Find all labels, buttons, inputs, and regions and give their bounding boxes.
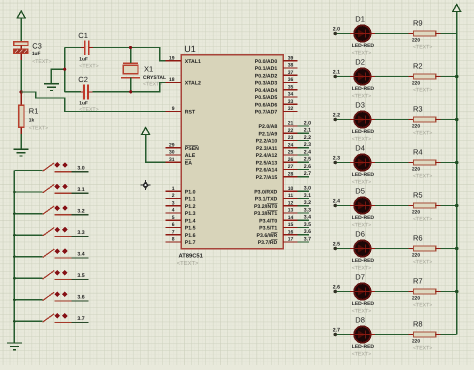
svg-text:LED-RED: LED-RED: [352, 215, 375, 221]
svg-text:LED-RED: LED-RED: [352, 172, 375, 178]
wire net 2.1 at pin 22: [298, 132, 309, 134]
svg-text:37: 37: [288, 70, 294, 76]
svg-text:C2: C2: [78, 75, 88, 84]
svg-text:16: 16: [288, 229, 294, 235]
pin 27 P2.6/A14: [256, 164, 298, 174]
wire power to C3: [20, 18, 22, 42]
ground between C1 C2: [44, 84, 59, 91]
svg-text:34: 34: [288, 92, 294, 98]
svg-text:LED-RED: LED-RED: [352, 129, 375, 135]
wire XTAL2 net: [93, 82, 168, 91]
svg-text:2.4: 2.4: [304, 149, 311, 155]
svg-text:R8: R8: [413, 320, 423, 329]
svg-text:1uF: 1uF: [32, 51, 41, 57]
resistor R9: [409, 31, 442, 36]
svg-text:220: 220: [412, 167, 420, 173]
wire LED D2 to resistor R2: [375, 76, 409, 78]
svg-text:2.7: 2.7: [333, 327, 340, 333]
svg-text:P3.4/T0: P3.4/T0: [259, 218, 277, 224]
svg-text:P1.1: P1.1: [185, 197, 196, 203]
svg-text:<TEXT>: <TEXT>: [352, 266, 371, 272]
switch SW0 net 3.0: [14, 162, 88, 172]
junction VCC bus: [455, 75, 458, 78]
svg-text:18: 18: [169, 77, 175, 83]
resistor R2: [409, 74, 442, 79]
svg-text:39: 39: [288, 55, 294, 61]
svg-text:D4: D4: [355, 144, 365, 153]
svg-text:P2.5/A13: P2.5/A13: [256, 160, 278, 166]
svg-text:P1.6: P1.6: [185, 233, 196, 239]
svg-text:LED-RED: LED-RED: [352, 301, 375, 307]
resistor R3: [409, 117, 442, 122]
svg-text:<TEXT>: <TEXT>: [79, 64, 98, 70]
svg-text:19: 19: [169, 55, 175, 61]
wire net 3.7 at pin 17: [298, 241, 309, 243]
svg-text:P2.4/A12: P2.4/A12: [256, 153, 278, 159]
pin 5 P1.4: [165, 215, 195, 225]
svg-text:3.6: 3.6: [304, 229, 311, 235]
svg-text:3.5: 3.5: [304, 222, 311, 228]
pin 28 P2.7/A15: [256, 171, 298, 181]
svg-text:<TEXT>: <TEXT>: [352, 352, 371, 358]
svg-text:2.5: 2.5: [333, 241, 340, 247]
junction switch bus: [13, 191, 16, 194]
switch SW7 net 3.7: [14, 313, 88, 323]
switch SW3 net 3.3: [14, 227, 88, 237]
svg-text:2: 2: [172, 193, 175, 199]
svg-text:P2.2/A10: P2.2/A10: [256, 139, 278, 145]
svg-text:R9: R9: [413, 19, 423, 28]
svg-text:14: 14: [288, 215, 294, 221]
svg-text:P3.7/RD: P3.7/RD: [258, 240, 278, 246]
svg-text:P1.3: P1.3: [185, 211, 196, 217]
svg-text:P1.5: P1.5: [185, 226, 196, 232]
svg-text:R5: R5: [413, 191, 423, 200]
svg-text:3.3: 3.3: [304, 207, 311, 213]
svg-text:2.1: 2.1: [333, 69, 340, 75]
pin 15 P3.5/T1: [259, 222, 297, 232]
wire resistor R3 to VCC bus: [441, 119, 457, 121]
svg-text:28: 28: [288, 171, 294, 177]
svg-text:LED-RED: LED-RED: [352, 86, 375, 92]
svg-text:D5: D5: [355, 187, 365, 196]
svg-text:2.1: 2.1: [304, 128, 311, 134]
LED D3: [350, 111, 375, 127]
wire crystal top: [130, 48, 132, 64]
svg-text:1: 1: [172, 186, 175, 192]
svg-text:P1.4: P1.4: [185, 218, 196, 224]
pin 7 P1.6: [165, 229, 195, 239]
wire net 3.3 at pin 13: [298, 212, 309, 214]
svg-text:X1: X1: [144, 65, 153, 74]
svg-text:10: 10: [288, 186, 294, 192]
svg-text:3.1: 3.1: [77, 187, 84, 193]
pin 16 P3.6/WR: [257, 229, 298, 239]
svg-text:<TEXT>: <TEXT>: [413, 45, 432, 51]
svg-text:R7: R7: [413, 277, 423, 286]
svg-text:P1.2: P1.2: [185, 204, 196, 210]
wire resistor R4 to VCC bus: [441, 162, 457, 164]
wire resistor R5 to VCC bus: [441, 205, 457, 207]
svg-text:CRYSTAL: CRYSTAL: [143, 75, 166, 81]
resistor R4: [409, 160, 442, 165]
pin 31 EA: [165, 157, 192, 167]
pin 18 XTAL2: [165, 77, 201, 87]
svg-text:1uF: 1uF: [79, 101, 88, 107]
pin 35 P0.4/AD4: [255, 84, 298, 94]
svg-text:LED-RED: LED-RED: [352, 344, 375, 350]
svg-text:2.5: 2.5: [304, 157, 311, 163]
svg-text:D3: D3: [355, 101, 365, 110]
resistor R8: [409, 332, 442, 337]
svg-text:P1.0: P1.0: [185, 189, 196, 195]
svg-text:PSEN: PSEN: [185, 146, 199, 152]
wire net 2.1 to LED D2: [335, 76, 350, 78]
svg-text:3.0: 3.0: [77, 165, 84, 171]
svg-text:P3.6/WR: P3.6/WR: [257, 233, 278, 239]
svg-text:P0.7/AD7: P0.7/AD7: [255, 110, 278, 116]
pin 23 P2.2/A10: [256, 135, 298, 145]
svg-text:P0.5/AD5: P0.5/AD5: [255, 95, 278, 101]
svg-text:C1: C1: [78, 31, 88, 40]
capacitor C1: [65, 40, 94, 55]
svg-text:<TEXT>: <TEXT>: [413, 131, 432, 137]
op-amp U1 AT89C51 body: [181, 55, 283, 249]
svg-text:R3: R3: [413, 105, 423, 114]
wire RST net: [21, 92, 167, 111]
svg-text:<TEXT>: <TEXT>: [413, 303, 432, 309]
pin 19 XTAL1: [165, 55, 201, 65]
svg-text:P2.0/A8: P2.0/A8: [259, 124, 278, 130]
wire net 2.2 at pin 23: [298, 139, 309, 141]
svg-text:P0.0/AD0: P0.0/AD0: [255, 59, 278, 65]
wire resistor R9 to VCC bus: [441, 33, 457, 35]
wire resistor R6 to VCC bus: [441, 248, 457, 250]
junction ground tap: [63, 68, 66, 71]
wire net 2.4 to LED D5: [335, 205, 350, 207]
pin 6 P1.5: [165, 222, 195, 232]
wire net 2.0 at pin 21: [298, 125, 309, 127]
svg-text:29: 29: [169, 142, 175, 148]
pin 26 P2.5/A13: [256, 157, 298, 167]
LED D1: [350, 25, 375, 41]
svg-text:P0.1/AD1: P0.1/AD1: [255, 66, 278, 72]
LED D5: [350, 197, 375, 213]
svg-text:3.5: 3.5: [77, 273, 84, 279]
wire XTAL1 net: [93, 48, 167, 61]
junction switch bus: [13, 234, 16, 237]
wire net 2.7 to LED D8: [335, 334, 350, 336]
junction C3/R1/RST: [20, 90, 23, 93]
wire net 2.0 to LED D1: [335, 33, 350, 35]
svg-text:13: 13: [288, 208, 294, 214]
wire net 3.6 at pin 16: [298, 234, 309, 236]
svg-text:3.4: 3.4: [77, 252, 84, 258]
svg-text:220: 220: [412, 253, 420, 259]
wire ground tap: [51, 69, 64, 84]
svg-text:31: 31: [169, 157, 175, 163]
svg-text:D7: D7: [355, 273, 365, 282]
svg-text:7: 7: [172, 229, 175, 235]
wire net 2.5 at pin 26: [298, 161, 309, 163]
svg-text:P3.0/RXD: P3.0/RXD: [254, 189, 277, 195]
pin 3 P1.2: [165, 200, 195, 210]
wire net 2.3 at pin 24: [298, 147, 309, 149]
wire crystal bottom: [130, 78, 132, 92]
wire resistor R2 to VCC bus: [441, 76, 457, 78]
svg-text:220: 220: [412, 296, 420, 302]
svg-text:26: 26: [288, 157, 294, 163]
svg-text:3.3: 3.3: [77, 230, 84, 236]
svg-text:P3.1/TXD: P3.1/TXD: [255, 197, 278, 203]
wire R1 to ground: [20, 134, 22, 149]
pin 34 P0.5/AD5: [255, 92, 298, 102]
svg-text:3.6: 3.6: [77, 295, 84, 301]
svg-text:<TEXT>: <TEXT>: [352, 94, 371, 100]
wire EA net: [146, 135, 167, 163]
svg-text:9: 9: [172, 106, 175, 112]
junction crystal bottom: [129, 90, 132, 93]
resistor R7: [409, 289, 442, 294]
svg-text:P3.3/INT1: P3.3/INT1: [254, 211, 277, 217]
svg-text:21: 21: [288, 121, 294, 127]
svg-text:6: 6: [172, 222, 175, 228]
svg-text:P3.2/INT0: P3.2/INT0: [254, 204, 277, 210]
capacitor C2: [65, 84, 93, 99]
svg-text:U1: U1: [184, 44, 196, 54]
svg-text:2.4: 2.4: [333, 198, 340, 204]
wire net 3.0 at pin 10: [298, 190, 309, 192]
wire LED D7 to resistor R7: [375, 291, 409, 293]
LED D7: [350, 283, 375, 299]
svg-text:<TEXT>: <TEXT>: [352, 180, 371, 186]
LED D2: [350, 68, 375, 84]
wire net 3.1 at pin 11: [298, 197, 309, 199]
wire net 3.2 at pin 12: [298, 205, 309, 207]
svg-text:<TEXT>: <TEXT>: [413, 217, 432, 223]
svg-text:27: 27: [288, 164, 294, 170]
svg-text:15: 15: [288, 222, 294, 228]
svg-text:P0.2/AD2: P0.2/AD2: [255, 73, 278, 79]
wire LED D5 to resistor R5: [375, 205, 409, 207]
resistor R6: [409, 246, 442, 251]
svg-text:220: 220: [412, 339, 420, 345]
svg-text:<TEXT>: <TEXT>: [413, 346, 432, 352]
svg-text:<TEXT>: <TEXT>: [29, 126, 48, 132]
svg-text:R2: R2: [413, 62, 423, 71]
pin 13 P3.3/INT1: [254, 208, 298, 218]
wire LED D3 to resistor R3: [375, 119, 409, 121]
svg-text:R6: R6: [413, 234, 423, 243]
pin 32 P0.7/AD7: [255, 106, 298, 116]
pin 9 RST: [165, 106, 196, 116]
svg-text:2.3: 2.3: [304, 142, 311, 148]
wire resistor R8 to VCC bus: [441, 334, 457, 336]
svg-text:P1.7: P1.7: [185, 240, 196, 246]
wire LED D8 to resistor R8: [375, 334, 409, 336]
svg-text:2.6: 2.6: [304, 164, 311, 170]
svg-text:R4: R4: [413, 148, 423, 157]
pin 11 P3.1/TXD: [255, 193, 298, 203]
svg-text:35: 35: [288, 84, 294, 90]
pin 8 P1.7: [165, 237, 195, 247]
svg-text:3.7: 3.7: [304, 236, 311, 242]
svg-text:<TEXT>: <TEXT>: [413, 88, 432, 94]
svg-text:38: 38: [288, 63, 294, 69]
resistor R1: [19, 92, 24, 135]
svg-text:33: 33: [288, 99, 294, 105]
pin 22 P2.1/A9: [259, 128, 298, 138]
svg-text:1k: 1k: [29, 118, 35, 124]
svg-text:XTAL2: XTAL2: [185, 81, 201, 87]
svg-text:4: 4: [172, 208, 175, 214]
svg-text:<TEXT>: <TEXT>: [177, 261, 199, 267]
pin 29 PSEN: [165, 142, 199, 152]
pin 14 P3.4/T0: [259, 215, 297, 225]
svg-text:LED-RED: LED-RED: [352, 258, 375, 264]
LED D6: [350, 240, 375, 256]
wire net 2.3 to LED D4: [335, 162, 350, 164]
svg-text:EA: EA: [185, 160, 192, 166]
junction VCC bus: [455, 161, 458, 164]
svg-text:P2.1/A9: P2.1/A9: [259, 131, 278, 137]
svg-text:2.0: 2.0: [304, 120, 311, 126]
svg-text:8: 8: [172, 237, 175, 243]
svg-text:2.7: 2.7: [304, 171, 311, 177]
svg-text:12: 12: [288, 200, 294, 206]
svg-text:3.4: 3.4: [304, 215, 311, 221]
svg-text:2.2: 2.2: [304, 135, 311, 141]
svg-text:C3: C3: [32, 41, 42, 50]
junction switch bus: [13, 212, 16, 215]
junction switch bus: [13, 299, 16, 302]
pin 30 ALE: [165, 150, 195, 160]
switch SW5 net 3.5: [14, 270, 88, 280]
junction VCC bus: [455, 290, 458, 293]
svg-text:3: 3: [172, 200, 175, 206]
ground below R1: [14, 149, 29, 156]
wire VCC bus right: [456, 12, 458, 335]
svg-text:3.7: 3.7: [77, 316, 84, 322]
svg-text:2.2: 2.2: [333, 112, 340, 118]
pin 4 P1.3: [165, 208, 195, 218]
svg-text:D1: D1: [355, 15, 365, 24]
pin 21 P2.0/A8: [259, 121, 298, 131]
junction VCC bus: [455, 118, 458, 121]
pin 12 P3.2/INT0: [254, 200, 298, 210]
svg-text:<TEXT>: <TEXT>: [32, 59, 51, 65]
wire LED D6 to resistor R6: [375, 248, 409, 250]
capacitor C3: [14, 42, 32, 54]
svg-text:3.0: 3.0: [304, 186, 311, 192]
svg-text:D2: D2: [355, 58, 365, 67]
svg-text:<TEXT>: <TEXT>: [352, 137, 371, 143]
svg-text:32: 32: [288, 106, 294, 112]
svg-text:2.3: 2.3: [333, 155, 340, 161]
wire net 2.5 to LED D6: [335, 248, 350, 250]
wire switch ground bus: [13, 171, 15, 344]
svg-text:P0.4/AD4: P0.4/AD4: [255, 88, 278, 94]
pin 39 P0.0/AD0: [255, 55, 298, 65]
svg-text:<TEXT>: <TEXT>: [413, 260, 432, 266]
switch SW4 net 3.4: [14, 248, 88, 258]
svg-text:<TEXT>: <TEXT>: [413, 174, 432, 180]
wire net 3.5 at pin 15: [298, 227, 309, 229]
pin 24 P2.3/A11: [256, 142, 298, 152]
svg-text:2.0: 2.0: [333, 26, 340, 32]
wire net 3.4 at pin 14: [298, 219, 309, 221]
pin 17 P3.7/RD: [258, 237, 298, 247]
power symbol VCC right: [453, 5, 461, 12]
svg-text:2.6: 2.6: [333, 284, 340, 290]
svg-text:220: 220: [412, 81, 420, 87]
resistor R5: [409, 203, 442, 208]
junction switch bus: [13, 277, 16, 280]
pin 2 P1.1: [165, 193, 195, 203]
svg-text:23: 23: [288, 135, 294, 141]
crystal X1: [121, 63, 140, 77]
svg-text:36: 36: [288, 77, 294, 83]
svg-text:25: 25: [288, 150, 294, 156]
svg-text:3.2: 3.2: [304, 200, 311, 206]
wire C3 to RST junction: [20, 53, 22, 60]
svg-text:220: 220: [412, 124, 420, 130]
wire ground bus C1-C2: [64, 48, 66, 92]
svg-text:D6: D6: [355, 230, 365, 239]
svg-text:3.1: 3.1: [304, 193, 311, 199]
pin 37 P0.2/AD2: [255, 70, 298, 80]
svg-text:ALE: ALE: [185, 153, 196, 159]
junction VCC bus: [455, 247, 458, 250]
pin 33 P0.6/AD6: [255, 99, 298, 109]
svg-text:AT89C51: AT89C51: [179, 252, 204, 259]
wire net 2.7 at pin 28: [298, 176, 309, 178]
svg-text:P2.3/A11: P2.3/A11: [256, 146, 277, 152]
wire LED D1 to resistor R9: [375, 33, 409, 35]
svg-text:22: 22: [288, 128, 294, 134]
LED D4: [350, 154, 375, 170]
pin 1 P1.0: [165, 186, 195, 196]
wire net 2.6 to LED D7: [335, 291, 350, 293]
switch SW6 net 3.6: [14, 292, 88, 302]
junction crystal top: [129, 46, 132, 49]
svg-text:P2.6/A14: P2.6/A14: [256, 168, 278, 174]
pin 10 P3.0/RXD: [254, 186, 297, 196]
junction switch bus: [13, 320, 16, 323]
svg-text:D8: D8: [355, 316, 365, 325]
wire resistor R7 to VCC bus: [441, 291, 457, 293]
svg-text:220: 220: [412, 210, 420, 216]
svg-text:24: 24: [288, 142, 294, 148]
pin 36 P0.3/AD3: [255, 77, 298, 87]
svg-text:P3.5/T1: P3.5/T1: [259, 226, 277, 232]
svg-text:3.2: 3.2: [77, 208, 84, 214]
svg-text:11: 11: [288, 193, 294, 199]
ground switch bus bottom: [7, 343, 22, 350]
wire LED D4 to resistor R4: [375, 162, 409, 164]
svg-text:LED-RED: LED-RED: [352, 43, 375, 49]
svg-text:<TEXT>: <TEXT>: [352, 309, 371, 315]
wire net 2.6 at pin 27: [298, 168, 309, 170]
pin 38 P0.1/AD1: [255, 63, 298, 73]
svg-text:R1: R1: [29, 107, 39, 116]
LED D8: [350, 326, 375, 342]
svg-text:30: 30: [169, 150, 175, 156]
svg-text:220: 220: [412, 38, 420, 44]
svg-text:P0.6/AD6: P0.6/AD6: [255, 102, 278, 108]
svg-text:17: 17: [288, 237, 294, 243]
wire net 2.2 to LED D3: [335, 119, 350, 121]
